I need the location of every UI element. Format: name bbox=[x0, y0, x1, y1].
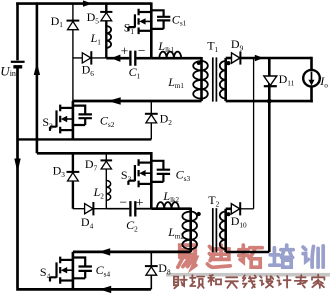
wire S2 trunk bbox=[72, 101, 75, 139]
wire C1 segment bbox=[106, 57, 129, 60]
node dot output bottom junction bbox=[267, 99, 272, 104]
transistor S3 bbox=[128, 159, 151, 187]
inductor Lm1 magnetizing winding bbox=[193, 61, 201, 99]
capacitor Cs2 snubber bbox=[73, 106, 85, 125]
diode D4 bbox=[85, 204, 93, 214]
wire T2 secondary bottom bbox=[226, 251, 270, 254]
wire left input branch lower + bottom rail bbox=[16, 68, 151, 289]
wire S2 source rail bbox=[18, 138, 152, 140]
diode D5 bbox=[100, 11, 112, 13]
watermark logo line1 bbox=[178, 245, 197, 268]
svg-text:−: − bbox=[119, 195, 127, 210]
winding T1 primary bbox=[202, 61, 208, 99]
transformer T2 primary edge bbox=[189, 208, 192, 252]
wire D9 D10 cathode junction branch bbox=[253, 58, 255, 209]
wire D4 segment bbox=[73, 208, 106, 210]
transformer T2 secondary edge bbox=[224, 209, 227, 252]
wire S1 trunk bbox=[150, 2, 153, 58]
wire D1 branch bbox=[72, 4, 74, 101]
node dot T2 primary bbox=[197, 212, 201, 216]
wire T1 primary loop top bbox=[151, 57, 201, 60]
wire output right side bbox=[310, 57, 313, 103]
watermark slogan line2 bbox=[174, 276, 187, 288]
wire output bottom rail bbox=[226, 100, 313, 103]
wire left input branch upper bbox=[16, 2, 19, 60]
wire D11 branch bbox=[268, 58, 271, 252]
diode D10 bbox=[231, 204, 239, 214]
transformer T1 primary edge bbox=[200, 57, 203, 101]
transistor S1 bbox=[128, 9, 151, 34]
svg-text:−: − bbox=[138, 43, 146, 58]
inductor Lm2 magnetizing winding bbox=[182, 212, 190, 250]
capacitor C2 bbox=[130, 201, 135, 216]
diode D1 bbox=[67, 20, 80, 22]
capacitor C1 bbox=[130, 51, 135, 66]
diode D2 bbox=[145, 113, 158, 115]
arrow current on T2 bottom rail bbox=[98, 248, 110, 255]
diode D11 bbox=[264, 76, 277, 85]
diode D6 bbox=[82, 53, 91, 63]
wire S3 trunk bbox=[150, 152, 153, 209]
node dot T2 secondary bbox=[226, 212, 230, 216]
arrow current on C1 wire bbox=[111, 55, 120, 62]
wire T2 primary loop bottom rail bbox=[73, 250, 191, 253]
wire output top rail bbox=[241, 57, 311, 60]
svg-text:+: + bbox=[121, 44, 129, 59]
wire T2 primary loop top bbox=[151, 207, 190, 210]
capacitor Cs4 snubber bbox=[73, 258, 85, 279]
svg-text:+: + bbox=[136, 195, 144, 210]
wire T2 secondary top to D10 bbox=[226, 208, 232, 211]
inductor L1 bbox=[106, 26, 111, 48]
wire D5 L1 branch bbox=[105, 4, 107, 59]
wire second vertical branch bbox=[36, 2, 39, 153]
wire T1 secondary top to D9 bbox=[226, 57, 232, 60]
inductor Llk1 leakage bbox=[159, 52, 181, 59]
transistor S4 bbox=[50, 257, 73, 284]
core T2 bbox=[213, 208, 217, 252]
arrow current on bottom rail bbox=[99, 286, 111, 293]
wire lower-half top rail bbox=[37, 152, 151, 155]
wire C2 segment bbox=[106, 208, 129, 210]
core T1 bbox=[213, 57, 217, 101]
transformer T1 secondary edge bbox=[224, 58, 227, 101]
wire top rail bbox=[16, 2, 151, 5]
arrow down on left branch bbox=[14, 159, 20, 173]
inductor Llk2 leakage bbox=[157, 202, 179, 209]
arrow current direction on top rail bbox=[83, 0, 92, 6]
transistor S2 bbox=[50, 105, 73, 134]
diode D8 bbox=[145, 265, 158, 267]
watermark underline bbox=[166, 273, 330, 277]
wire D10 to junction branch bbox=[241, 208, 254, 210]
diode D7 bbox=[101, 159, 113, 161]
capacitor Cs3 snubber bbox=[151, 161, 163, 182]
capacitor Cs1 snubber bbox=[151, 10, 163, 29]
diode D9 bbox=[232, 53, 240, 63]
diode D3 bbox=[67, 171, 80, 173]
wire D8 branch bbox=[150, 252, 152, 290]
winding T1 secondary bbox=[220, 61, 226, 99]
wire D7 L2 branch bbox=[105, 153, 107, 208]
inductor L2 bbox=[106, 181, 110, 201]
arrow current on output rail bbox=[255, 55, 264, 61]
arrow up on second branch bbox=[34, 63, 40, 76]
arrow current on primary bottom rail bbox=[108, 97, 121, 105]
wire D2 branch bbox=[150, 101, 152, 139]
winding T2 primary bbox=[191, 212, 197, 250]
winding T2 secondary bbox=[220, 212, 226, 250]
node dot T1 primary bbox=[197, 61, 201, 65]
wire T1 primary loop bottom rail bbox=[73, 100, 202, 103]
wire S4 trunk bbox=[72, 252, 75, 290]
voltage source Uin bbox=[11, 61, 25, 63]
wire D3 branch bbox=[72, 153, 74, 208]
current source Io bbox=[303, 70, 320, 87]
wire D6 segment bbox=[73, 57, 106, 59]
node dot T1 secondary bbox=[226, 61, 230, 65]
